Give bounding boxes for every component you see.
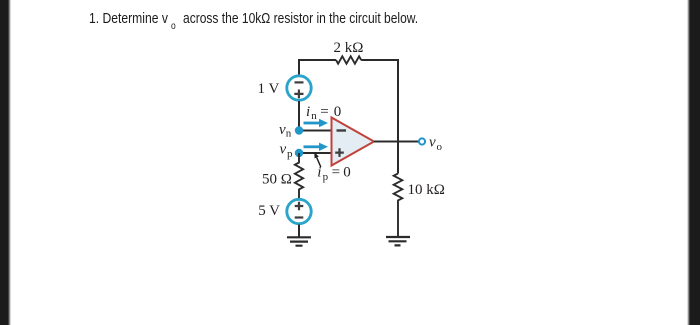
wire top rail left segment <box>299 60 336 75</box>
V1 minus sign <box>295 81 304 83</box>
svg-text:v: v <box>429 135 436 151</box>
svg-text:i: i <box>317 165 321 181</box>
svg-text:1 V: 1 V <box>258 81 280 97</box>
svg-text:p: p <box>323 171 329 183</box>
svg-text:10 kΩ: 10 kΩ <box>408 182 445 198</box>
node vn dot <box>295 126 303 134</box>
svg-text:n: n <box>286 128 292 140</box>
svg-text:0: 0 <box>334 104 342 120</box>
svg-text:2 kΩ: 2 kΩ <box>334 40 364 56</box>
voltage source V2 5 V circle <box>287 199 311 223</box>
wire node vp to op-amp noninverting input <box>299 152 332 154</box>
svg-text:50 Ω: 50 Ω <box>262 172 292 188</box>
node vp dot <box>295 149 303 157</box>
wire top rail right segment and right rail down <box>361 60 398 174</box>
resistor R feedback 2 kΩ zigzag <box>336 56 361 63</box>
svg-text:0: 0 <box>343 165 351 181</box>
op-amp U1 triangle <box>332 118 375 166</box>
svg-text:i: i <box>306 104 310 120</box>
left dark page edge <box>0 0 11 325</box>
current arrow in <box>304 122 320 125</box>
svg-text:v: v <box>280 141 287 157</box>
current arrow ip <box>304 145 320 148</box>
svg-text:5 V: 5 V <box>258 203 280 219</box>
right dark page edge <box>687 0 700 325</box>
wire V1 bottom to node vn <box>298 101 300 131</box>
wire op-amp output to vo terminal <box>374 141 418 143</box>
svg-text:=: = <box>320 104 328 120</box>
ground symbol left <box>287 237 311 245</box>
voltage source V1 1 V circle <box>287 76 311 100</box>
wire V2 bottom to ground <box>298 225 300 238</box>
V2 plus sign <box>295 202 304 211</box>
svg-text:n: n <box>311 110 317 122</box>
V2 minus sign <box>295 216 304 218</box>
resistor 50 Ω zigzag <box>295 153 303 198</box>
wire node vn to op-amp inverting input <box>299 130 332 132</box>
svg-text:=: = <box>332 165 340 181</box>
title text <box>89 12 168 26</box>
V1 plus sign <box>294 90 303 99</box>
svg-text:p: p <box>287 148 293 160</box>
leader line for ip label <box>317 158 321 168</box>
svg-text:o: o <box>437 141 443 153</box>
resistor 10 kΩ zigzag <box>394 174 403 238</box>
ground symbol right <box>386 237 410 245</box>
terminal vo open circle <box>419 138 425 144</box>
op-amp plus input sign <box>335 148 344 157</box>
op-amp minus input sign <box>337 129 347 131</box>
